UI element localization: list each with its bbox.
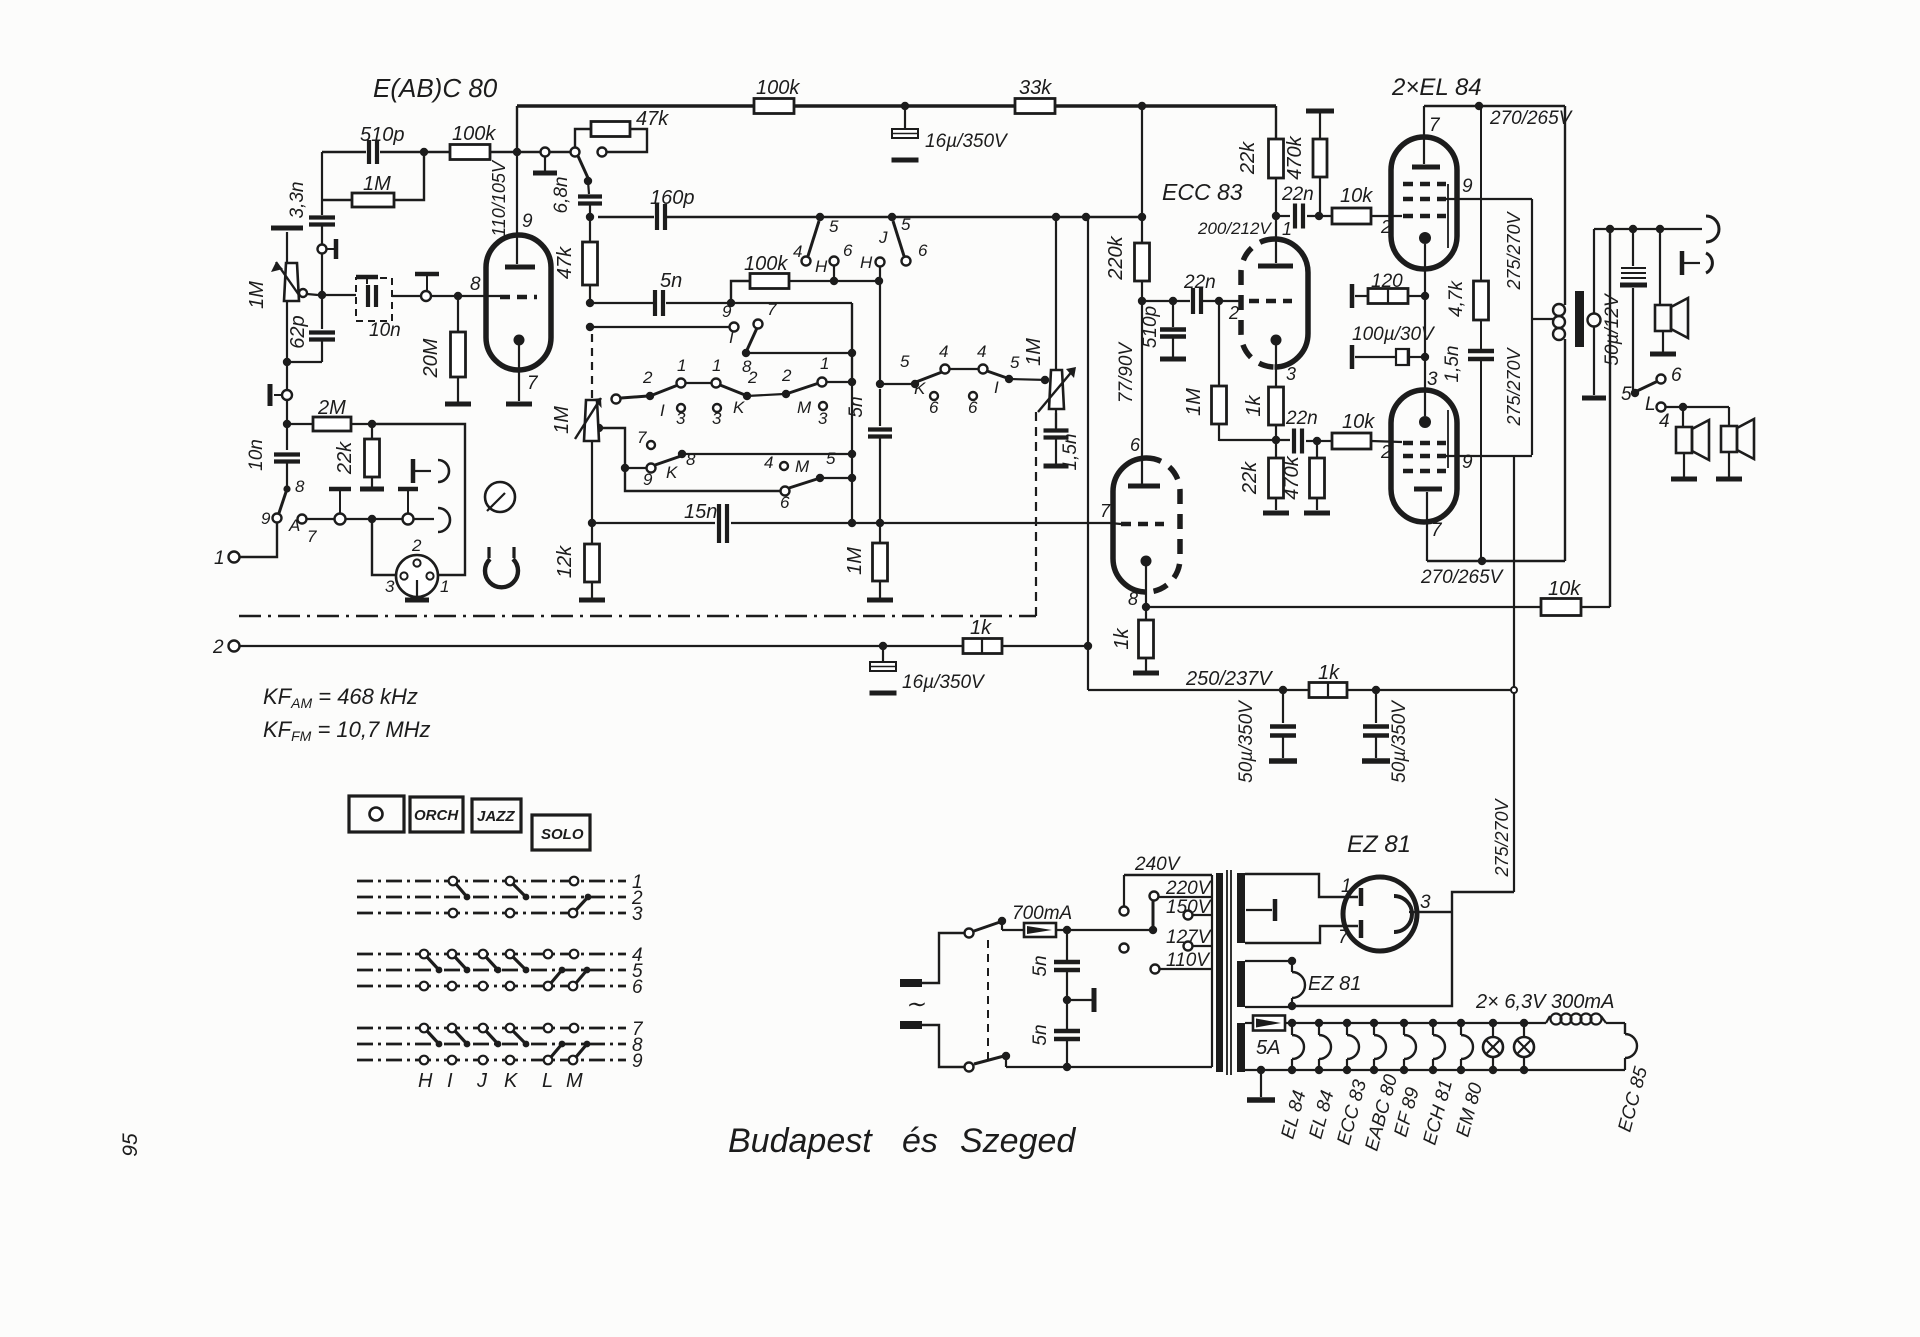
wire to trap terminal [321,225,323,244]
svg-text:2×EL 84: 2×EL 84 [1391,74,1482,101]
tap 240V [1124,874,1212,876]
table group2 contacts [420,950,429,959]
resistor 1k cathode1 [1269,387,1284,425]
capacitor 100u/30V [1410,356,1425,358]
node junction 592,523 [588,519,596,527]
svg-text:4: 4 [1659,411,1670,432]
tube EL84 no1 [1391,137,1457,269]
svg-text:L: L [1645,394,1656,415]
EL84-1 beam plate tie [1447,184,1449,248]
headphone jack sleeve [1706,253,1712,273]
tube ECC83 triode2 [1113,458,1147,592]
svg-text:6: 6 [1130,435,1141,455]
resistor 470k [1316,441,1318,458]
node junction 590,327 [586,323,594,331]
svg-text:1M: 1M [551,406,573,434]
headphone wire y229 [1594,228,1702,230]
svg-text:47k: 47k [636,108,669,130]
svg-text:10k: 10k [1548,578,1581,600]
svg-text:∼: ∼ [905,991,925,1018]
wire y440 [1219,439,1290,441]
svg-text:K: K [914,379,926,398]
resistor 10k feedback [1541,599,1581,616]
svg-text:10k: 10k [1340,185,1373,207]
node junction 458,296 [454,292,462,300]
wire [346,518,402,520]
svg-text:KFAM = 468 kHz: KFAM = 468 kHz [263,684,418,711]
wire loop to DIN pin1 [372,424,465,575]
resistor 47k bridge [575,129,591,147]
node junction 905,106 [901,102,909,110]
EL84-2 screen wire [1446,455,1532,457]
EL84-2 cathode [1419,416,1431,428]
svg-text:220k: 220k [1105,235,1127,280]
node junction 1056,217 [1052,213,1060,221]
ECC83-2 grid [1121,522,1164,527]
svg-text:7: 7 [1100,501,1111,521]
switch row1 wire3 [827,381,852,383]
potentiometer 1M volume [286,242,288,265]
svg-text:5: 5 [1621,384,1632,405]
svg-text:10n: 10n [246,439,267,471]
svg-text:8: 8 [686,450,696,469]
speaker 1 internal [1659,229,1661,304]
capacitor 22n coupling2 [1292,429,1296,454]
speaker 2a [1682,407,1684,426]
resistor 20M grid leak [457,296,459,332]
table group1 contacts [449,877,458,886]
table group2 lines [357,953,626,956]
resistor 220k [1141,106,1143,243]
speaker switch contact 4 [1657,403,1666,412]
svg-text:H: H [815,257,828,276]
svg-text:J: J [878,228,888,247]
svg-text:5n: 5n [1030,955,1051,976]
svg-text:275/270V: 275/270V [1492,797,1512,877]
svg-text:6: 6 [1671,365,1682,386]
terminal 340,519 with bar [335,514,346,525]
switch contact 9 [273,514,282,523]
resistor 33k [1015,99,1055,114]
terminal 1 [229,552,240,563]
table group3 lines [357,1027,626,1030]
svg-text:4: 4 [793,242,802,261]
svg-text:H: H [860,253,873,272]
vertical 880 upper [879,281,881,384]
tap 127V [1184,942,1193,951]
svg-text:1M: 1M [1183,388,1205,416]
mains plug upper prong [900,979,922,987]
svg-text:2: 2 [747,368,758,387]
pushbutton SOLO [532,815,590,850]
wire pivot to 852 [746,352,852,354]
resistor 2M [287,423,313,425]
switch H 4-5-6 [808,221,819,256]
node junction 517,152 [513,148,521,156]
wire wiper to 10n box [322,294,356,296]
svg-text:110V: 110V [1166,950,1211,971]
EL84-1 cathode [1419,232,1431,244]
wire loop 303 to 852 [731,302,852,304]
capacitor 50u/350V no1 [1282,690,1284,723]
svg-text:1k: 1k [1243,394,1265,416]
svg-text:22k: 22k [1239,461,1261,495]
screen rail 1532 [1531,199,1533,455]
transformer heater EZ81 winding [1237,961,1245,1007]
heater bus top [1245,1022,1253,1024]
svg-text:9: 9 [1462,176,1473,197]
line filter ground bar [1067,999,1092,1001]
trimmer 10n in dashed box [356,278,392,321]
capacitor 160p [655,204,659,230]
svg-text:5: 5 [900,352,910,371]
svg-text:20M: 20M [420,338,442,378]
heater EF89 [1403,1023,1405,1035]
pushbutton blank [349,796,404,832]
pickup indicator circle [485,482,515,512]
resistor 10k grid stop2 [1317,440,1332,442]
HV top to EZ81 plate1 [1245,874,1358,897]
ECC83-1 grid [1249,299,1292,304]
resistor 1k dropper [1309,683,1347,698]
svg-text:3: 3 [1420,892,1431,913]
capacitor 5n line2 [1066,1000,1068,1029]
capacitor 50u/350V no2 [1375,690,1377,723]
svg-text:3,3n: 3,3n [287,182,308,219]
svg-text:100k: 100k [756,77,800,99]
EZ81 plate 7 [1359,920,1364,938]
transformer core [1226,870,1228,1075]
svg-text:9: 9 [643,470,653,489]
svg-text:6,8n: 6,8n [551,177,572,214]
output transformer primary [1564,106,1566,305]
tube EZ81 envelope [1343,877,1417,951]
svg-text:1: 1 [677,356,686,375]
row3 wire [625,468,780,491]
svg-text:1k: 1k [1111,627,1133,649]
svg-text:270/265V: 270/265V [1489,108,1574,129]
svg-text:4: 4 [977,342,986,361]
snubber vertical 1481 [1480,106,1482,281]
svg-text:H: H [418,1070,433,1092]
svg-text:700mA: 700mA [1012,903,1072,924]
node junction 1085,217 [1082,213,1090,221]
svg-text:M: M [797,398,812,417]
terminal with bar 322,249 [318,245,327,254]
resistor 1k bus [963,639,1002,654]
tap 220V [1150,892,1159,901]
node junction 1143,301 [1138,297,1146,305]
capacitor 50u/12V [1632,229,1634,266]
svg-text:50µ/350V: 50µ/350V [1236,699,1257,783]
svg-text:3: 3 [1427,369,1438,390]
capacitor 16u/350V upper [904,106,906,129]
wire term1 to contact9 [240,523,277,557]
svg-text:5: 5 [1010,353,1020,372]
node junction 1219,301 [1215,297,1223,305]
switch contact A2 [598,148,607,157]
transformer primary winding [1211,875,1213,1067]
capacitor 22n coupling1 [1293,204,1297,229]
wire grid line y152 [322,151,366,153]
svg-text:J: J [476,1070,488,1092]
svg-text:200/212V: 200/212V [1197,219,1272,238]
wire contact7 to jack [307,518,335,520]
svg-text:E(AB)C 80: E(AB)C 80 [373,73,498,103]
EL84-1 screen wire [1446,198,1532,200]
speaker 2b [1728,407,1730,425]
wire to ext speakers [1666,406,1729,408]
jack contact arc lower [438,508,450,532]
svg-text:K: K [733,398,745,417]
mech dash line vertical right [1035,412,1037,616]
EL84-2 anode [1414,487,1442,492]
heater ECC83 [1346,1023,1348,1035]
node junction 892,217 [888,213,896,221]
terminal with ground at 545,152 [541,148,550,157]
svg-text:6: 6 [780,493,790,512]
svg-text:ORCH: ORCH [414,807,459,824]
resistor 22k anode [1269,139,1284,178]
wire 250/237V [1088,689,1512,691]
OT centre tap [1532,318,1553,320]
resistor 1M gridleak [1218,301,1220,386]
HV bottom to EZ81 plate7 [1245,926,1358,943]
DIN socket [396,555,438,597]
svg-text:6: 6 [929,398,939,417]
tube E(AB)C80 envelope [486,235,551,370]
svg-text:250/237V: 250/237V [1185,668,1273,690]
terminal ground 287,395 [282,390,292,400]
capacitor 16u/350V lower [882,646,884,662]
node junction 1283,690 [1279,686,1287,694]
svg-text:9: 9 [722,302,732,321]
capacitor 15n wire y523 [592,522,715,524]
svg-text:M: M [566,1070,583,1092]
svg-text:9: 9 [261,509,271,528]
svg-text:I: I [994,378,999,397]
svg-text:3: 3 [385,577,395,596]
node junction 852,523 [848,519,856,527]
svg-text:220V: 220V [1165,878,1213,899]
left rail down [286,301,288,390]
resistor 1M shunt [879,523,881,543]
svg-text:M: M [795,457,810,476]
svg-text:150V: 150V [1166,897,1213,918]
resistor 100k input [450,145,490,160]
svg-text:EZ 81: EZ 81 [1308,973,1361,995]
node junction 879,281 [875,277,883,285]
wire [950,368,978,370]
node junction 820,217 [816,213,824,221]
mains switch coupling dash [987,940,989,1060]
node junction 590,217 [586,213,594,221]
svg-text:K: K [666,463,678,482]
wire to jack arc [414,518,434,520]
svg-text:10n: 10n [369,320,401,341]
svg-text:510p: 510p [360,124,405,146]
svg-text:12k: 12k [554,545,576,578]
svg-text:JAZZ: JAZZ [477,808,515,825]
svg-text:L: L [542,1070,553,1092]
resistor 4.7k [1474,281,1489,320]
pushbutton ORCH [410,797,463,832]
resistor 10k grid stop1 [1332,208,1371,224]
svg-text:270/265V: 270/265V [1420,567,1505,588]
transformer HV secondary [1237,873,1245,943]
svg-text:7: 7 [767,300,777,319]
wire row3 to 852 [820,477,852,479]
wire feedback y607 [1146,606,1541,608]
svg-text:2M: 2M [317,397,346,419]
pot wiper terminal [299,289,307,297]
svg-text:15n: 15n [684,501,717,523]
node junction 1067,930 [1063,926,1071,934]
svg-text:22n: 22n [1183,272,1216,293]
svg-text:2: 2 [411,536,422,555]
svg-text:8: 8 [1128,589,1138,609]
switch blade to 6.8n [578,156,588,178]
svg-text:33k: 33k [1019,77,1052,99]
mech dash line pot1 [591,334,593,400]
svg-text:1k: 1k [970,617,992,639]
heater EL84 a [1291,1023,1293,1035]
capacitor 62p [321,295,323,329]
wire y327 to switch I [590,326,729,328]
svg-text:2: 2 [781,366,792,385]
capacitor 510p [367,140,371,164]
vertical 852 [851,303,853,382]
svg-text:3: 3 [676,409,686,428]
svg-text:6: 6 [918,241,928,260]
svg-text:4,7k: 4,7k [1446,280,1467,317]
svg-text:7: 7 [1429,115,1441,136]
svg-text:100k: 100k [452,123,496,145]
svg-text:2: 2 [212,637,224,658]
right chain to pot [880,383,913,385]
switch row1 blade c [720,385,745,395]
output transformer core [1575,291,1584,347]
svg-text:és: és [902,1122,938,1160]
switch contact 8 [283,485,290,492]
EL84-2 beam plate tie [1447,410,1449,468]
pot wiper wire row2 [595,424,603,432]
EL84-1 anode [1412,165,1440,170]
svg-text:2: 2 [1228,303,1239,323]
svg-text:16µ/350V: 16µ/350V [925,131,1009,152]
bar above 10n box [356,275,378,280]
svg-text:1: 1 [820,354,829,373]
node junction 590,303 [586,299,594,307]
speaker switch 5-6 [1631,389,1639,397]
EZ81 heater winding bottom [1245,1006,1292,1008]
svg-text:KFFM = 10,7 MHz: KFFM = 10,7 MHz [263,717,431,744]
pilot lamp 2 [1520,1019,1528,1027]
pot top lead [1055,217,1057,370]
svg-text:5A: 5A [1256,1037,1280,1059]
voltage selector link [1149,926,1157,934]
EZ81 heater winding top [1245,960,1292,962]
contact 7 isolated [647,441,655,449]
switch blade KI a [916,372,942,382]
svg-text:1M: 1M [1023,338,1045,366]
B+ vertical 1514 [1513,455,1515,688]
wire grid2 y523 [1110,523,1121,524]
switch K row2 [625,467,646,469]
svg-text:6: 6 [968,398,978,417]
jack contact arc upper with bar [438,460,449,482]
wire plate2 y561 [1427,560,1565,562]
mech dash line pot2 [1055,413,1057,429]
svg-text:275/270V: 275/270V [1504,210,1524,290]
potentiometer 1M tone [1049,370,1064,409]
wire top HT rail y106 [517,104,1276,108]
switch row1 wire2 [747,394,784,396]
svg-text:9: 9 [1462,452,1473,473]
svg-text:7: 7 [637,428,647,447]
resistor 470k screenfeed [1306,109,1334,114]
wire to grid pin8 [431,295,500,297]
mech dash line horizontal [239,615,1036,618]
node junction 1088,646 [1084,642,1092,650]
capacitor 5n shunt [879,389,881,426]
capacitor 22n upper [1191,288,1195,314]
switch contact 7b [298,515,307,524]
svg-text:16µ/350V: 16µ/350V [902,672,986,693]
EZ81 cathode tap [1414,911,1452,913]
svg-text:6: 6 [843,241,853,260]
svg-text:5n: 5n [846,396,867,417]
capacitor 3.3n [309,215,335,219]
svg-text:62p: 62p [287,315,309,348]
wire to 2M node [286,400,288,424]
svg-text:510p: 510p [1140,306,1161,348]
switch row1 wire [686,382,712,384]
svg-text:I: I [447,1070,453,1092]
svg-text:Szeged: Szeged [960,1122,1076,1160]
svg-text:160p: 160p [650,187,695,209]
fuse 700mA [1002,929,1024,931]
potentiometer 1M second [584,400,599,441]
heater bus bottom [1245,1069,1625,1071]
wire anode to 22n [1276,215,1290,217]
terminal 2 [229,641,240,652]
row1 open contacts 3 [677,404,685,412]
capacitor 5n line1 [1066,930,1068,960]
resistor 1k cathode2 [1139,620,1154,658]
terminal 408,519 with bar [403,514,414,525]
wire down to wiper node [321,254,323,295]
heater EL84 b [1318,1023,1320,1035]
resistor 22k agc [371,424,373,439]
wire 322 vertical [321,152,323,215]
capacitor 1.5n snubber [1468,349,1494,353]
wire mains top [922,933,964,983]
svg-text:1: 1 [214,548,225,569]
switch row1 blade a [621,396,648,398]
svg-text:240V: 240V [1134,854,1182,875]
table group1 lines [357,880,626,883]
pickup head symbol [485,559,518,587]
svg-text:I: I [660,401,665,420]
resistor 120 cathode [1409,295,1425,297]
transformer heater 6.3V winding [1237,1023,1245,1072]
tap 110V [1151,965,1160,974]
svg-text:110/105V: 110/105V [489,159,509,237]
wire mains bottom [922,1025,964,1067]
resistor 100k top [754,99,794,114]
svg-text:7: 7 [1431,520,1443,541]
